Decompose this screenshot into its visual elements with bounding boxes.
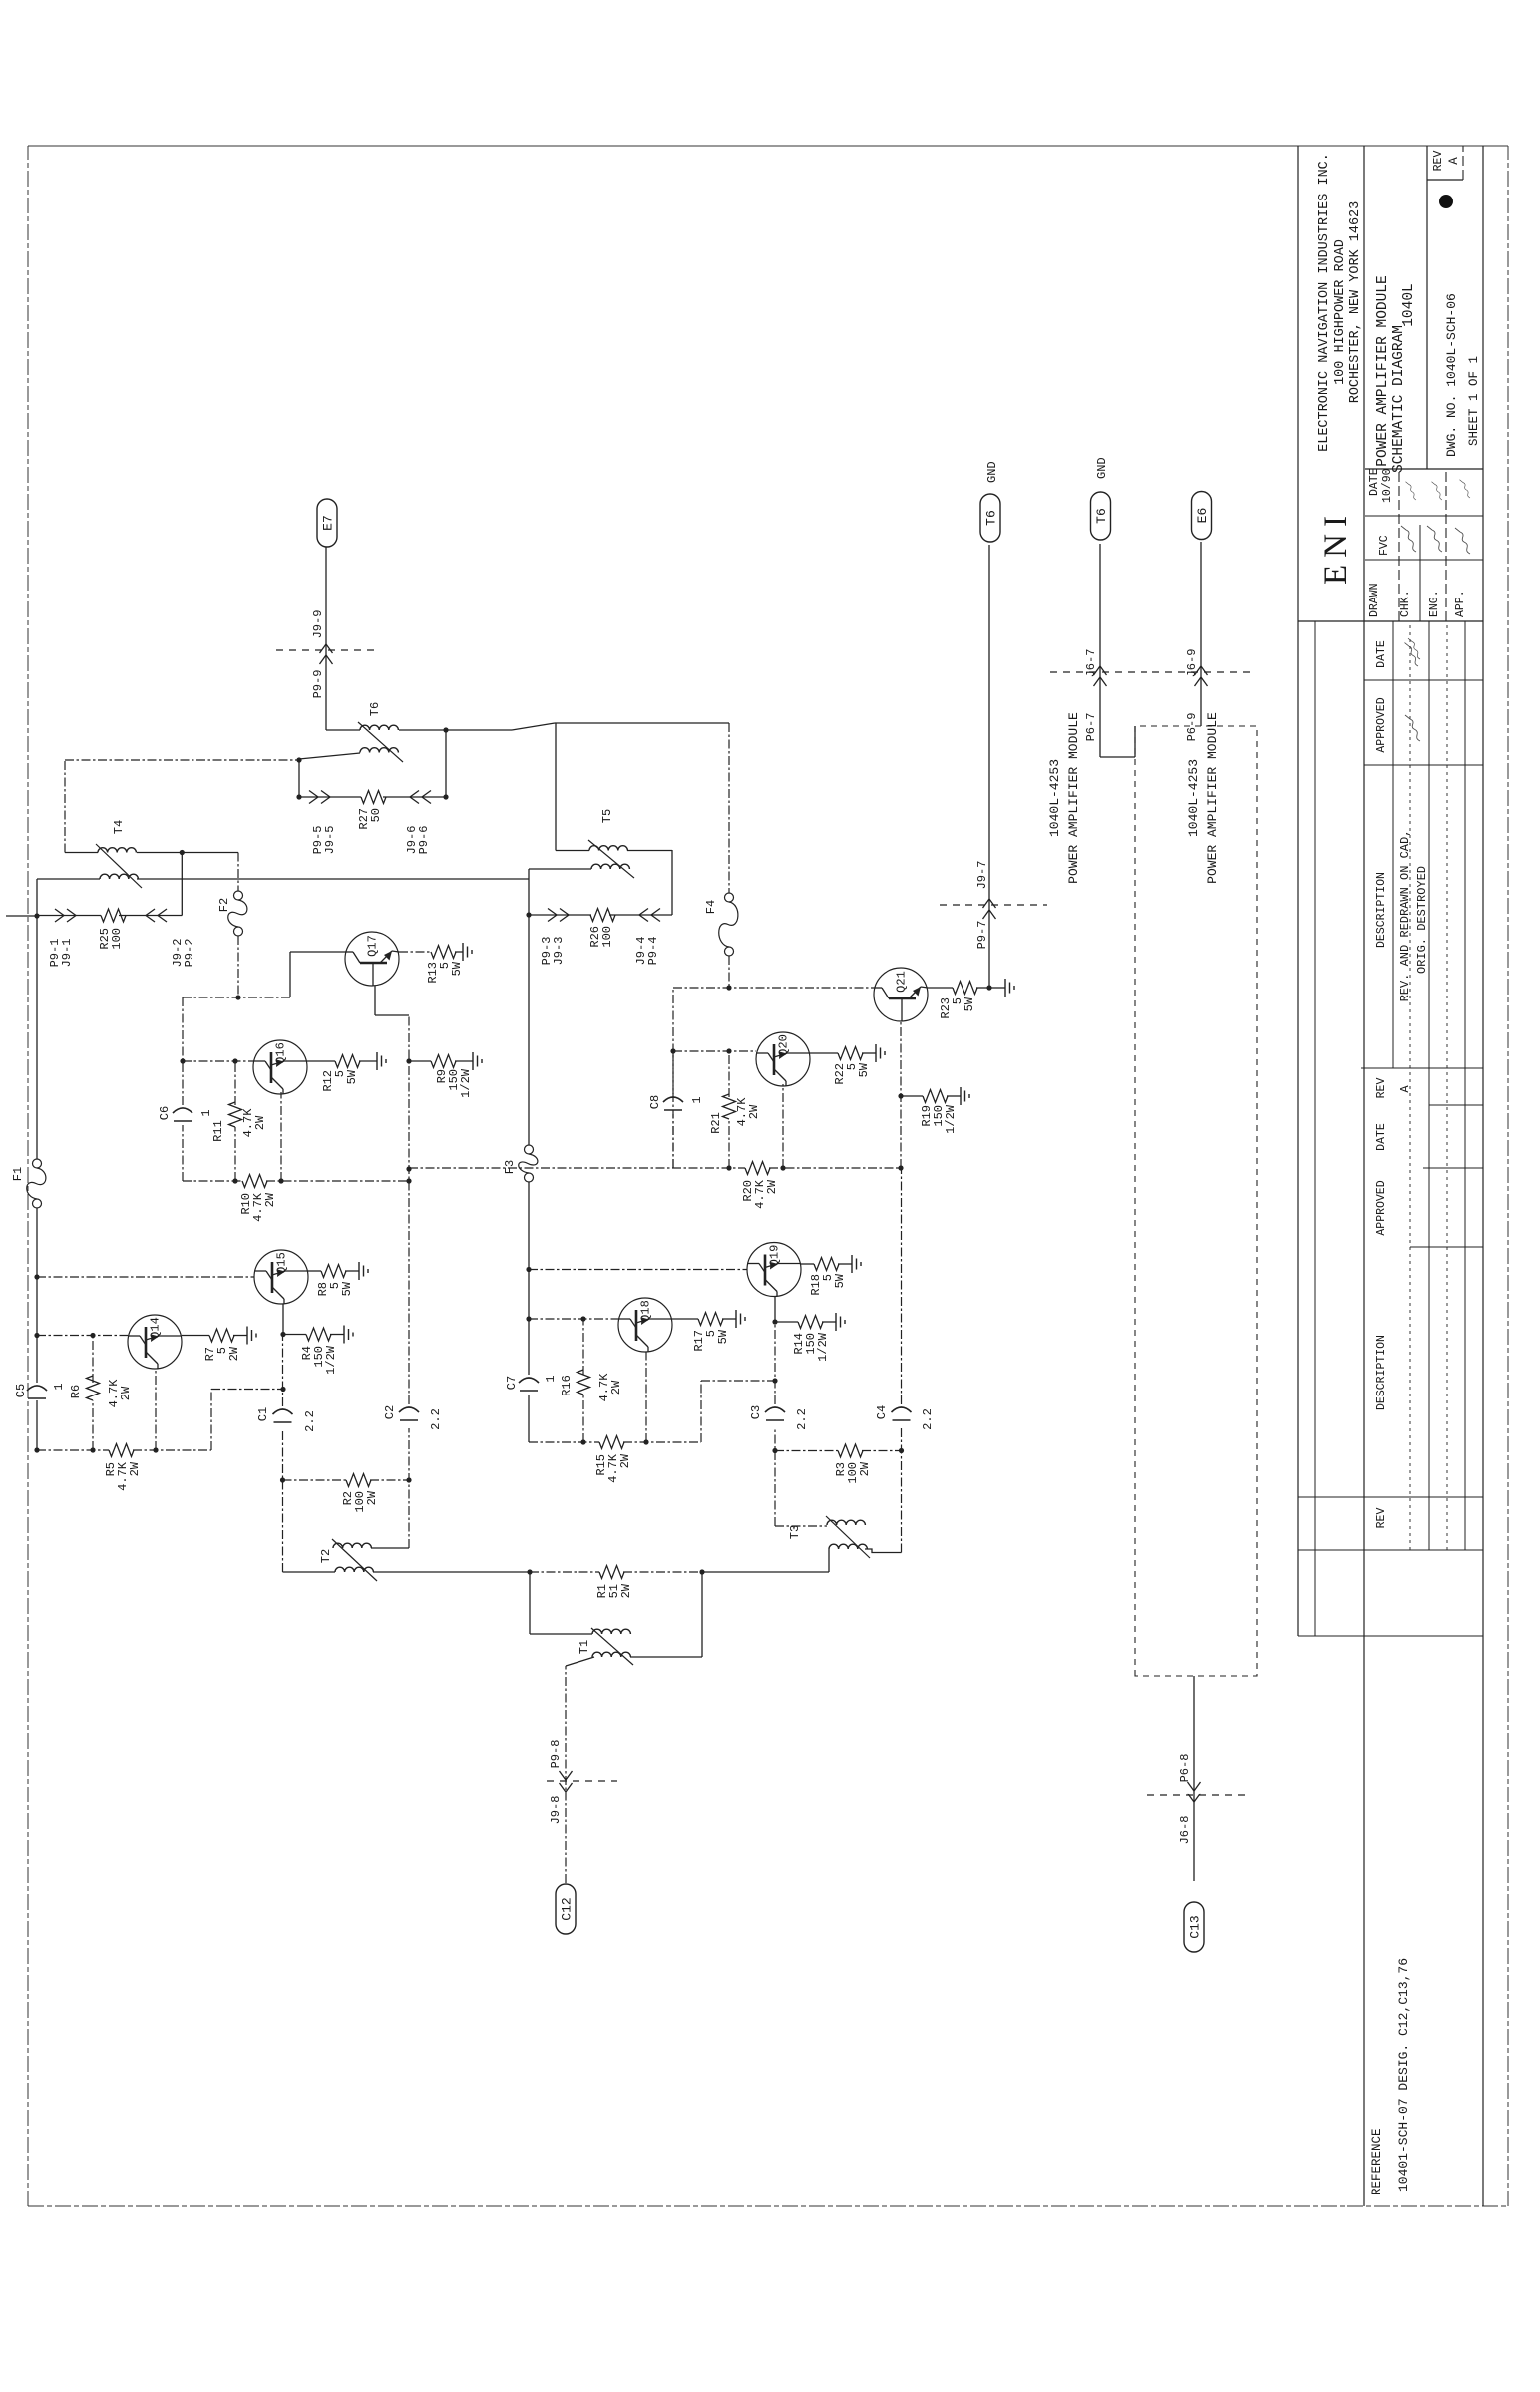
wire Q18 base lead <box>529 1318 618 1320</box>
wire T5 right winding bottom link <box>627 850 672 852</box>
svg-text:2W: 2W <box>765 1179 779 1194</box>
node N1 junction <box>34 913 39 918</box>
svg-text:2W: 2W <box>253 1115 267 1130</box>
svg-text:DATE: DATE <box>1368 468 1381 496</box>
wire Q17 emitter to R13 <box>399 951 431 953</box>
svg-text:2W: 2W <box>119 1386 133 1400</box>
svg-text:C6: C6 <box>158 1106 172 1120</box>
connector chain P9-1/J9-1 R25 J9-2/P9-2 <box>37 853 182 923</box>
wire Q14 base lead <box>37 1335 128 1337</box>
resistor R20 <box>741 1162 779 1209</box>
svg-text:J9-8: J9-8 <box>549 1796 563 1825</box>
svg-text:P9-7: P9-7 <box>975 921 989 950</box>
svg-text:J6-9: J6-9 <box>1185 649 1199 678</box>
wire Q21 base rail <box>673 988 874 1168</box>
svg-text:2.2: 2.2 <box>303 1410 317 1432</box>
svg-text:POWER AMPLIFIER MODULE: POWER AMPLIFIER MODULE <box>1066 712 1081 884</box>
dwg number <box>1444 293 1459 457</box>
svg-text:SHEET 1 OF 1: SHEET 1 OF 1 <box>1467 356 1481 446</box>
junction Q18 base tap <box>526 1316 531 1321</box>
module label 1 <box>1047 712 1081 884</box>
svg-text:REV: REV <box>1375 1078 1388 1099</box>
svg-text:1040L: 1040L <box>1401 283 1417 327</box>
svg-text:APPROVED: APPROVED <box>1375 697 1388 752</box>
svg-text:ENI: ENI <box>1318 509 1353 585</box>
svg-text:Q14: Q14 <box>149 1317 163 1339</box>
svg-text:P9-9: P9-9 <box>311 670 325 699</box>
label P9-3 J9-3 <box>540 937 566 966</box>
svg-text:2.2: 2.2 <box>921 1408 935 1430</box>
svg-text:2W: 2W <box>747 1104 761 1119</box>
wire R3 column <box>772 1448 904 1453</box>
svg-text:2W: 2W <box>619 1583 633 1598</box>
junction Q20 collector <box>780 1165 785 1170</box>
svg-text:T2: T2 <box>319 1549 333 1563</box>
connector P6-7/J6-7 <box>1050 649 1147 742</box>
junction Q14 base tap <box>34 1333 39 1338</box>
svg-text:C12: C12 <box>560 1897 575 1920</box>
svg-text:1/2W: 1/2W <box>944 1104 958 1134</box>
transistor Q15 <box>254 1250 308 1304</box>
wire Q14 collector <box>153 1369 158 1453</box>
svg-text:1: 1 <box>52 1383 66 1390</box>
capacitor C4 <box>875 1405 935 1430</box>
wire E6 line <box>1200 542 1202 726</box>
wire Q21 emitter to R23 <box>928 987 953 989</box>
rev cell <box>1432 151 1461 172</box>
svg-text:DESCRIPTION: DESCRIPTION <box>1375 872 1388 948</box>
svg-text:P6-8: P6-8 <box>1178 1754 1192 1783</box>
junction F4 to Q21 base <box>726 985 731 990</box>
svg-text:REV. AND REDRAWN ON CAD,: REV. AND REDRAWN ON CAD, <box>1398 830 1412 1002</box>
junction T6 primary node <box>296 757 301 799</box>
title block grid <box>1298 146 1483 2206</box>
svg-text:1040L-4253: 1040L-4253 <box>1047 759 1062 837</box>
wire Q17 base path <box>290 952 345 997</box>
junction Q16 base tap <box>180 1058 185 1063</box>
svg-text:ROCHESTER, NEW YORK 14623: ROCHESTER, NEW YORK 14623 <box>1348 201 1363 404</box>
svg-text:1/2W: 1/2W <box>459 1068 473 1098</box>
svg-text:T3: T3 <box>788 1525 802 1539</box>
wire R6 row <box>90 1333 95 1453</box>
wire Q21 collector path <box>898 1021 903 1171</box>
transformer T5 <box>588 809 634 878</box>
svg-text:T6: T6 <box>984 510 999 526</box>
resistor R1 <box>595 1566 633 1599</box>
wire C8 line <box>670 1048 675 1168</box>
wire T4 right winding to corner <box>65 852 238 854</box>
svg-text:J9-1: J9-1 <box>60 939 74 968</box>
ground R17 <box>722 1310 745 1328</box>
svg-text:REFERENCE: REFERENCE <box>1370 2128 1384 2195</box>
wire left rail R20 <box>409 1167 901 1169</box>
ground R12 <box>359 1052 386 1070</box>
svg-text:J6-7: J6-7 <box>1084 649 1098 678</box>
svg-text:10/90: 10/90 <box>1381 468 1394 503</box>
ground R13 <box>455 943 472 961</box>
wire jog R15 to main node ch2 <box>701 1378 778 1442</box>
transistor Q16 <box>253 1040 307 1094</box>
svg-text:50: 50 <box>369 808 383 822</box>
svg-text:P9-2: P9-2 <box>183 939 196 968</box>
svg-text:E6: E6 <box>1195 508 1210 524</box>
junction Q15 base tap <box>34 1274 39 1279</box>
resistor R15 <box>594 1436 632 1483</box>
wire GND bus 1 <box>988 545 990 988</box>
wire left rail R10 <box>183 1180 409 1182</box>
ground R18 <box>838 1255 861 1273</box>
svg-text:A: A <box>1447 157 1461 165</box>
svg-text:2W: 2W <box>365 1490 379 1505</box>
wire to C12 <box>566 1657 594 1883</box>
wire rail R1 <box>527 1569 704 1574</box>
wire C13 line <box>1193 1676 1195 1881</box>
svg-text:Q19: Q19 <box>768 1245 782 1267</box>
svg-text:P6-9: P6-9 <box>1185 713 1199 742</box>
terminal E7 <box>317 499 337 650</box>
resistor R22 <box>833 1047 871 1085</box>
terminal T6 gnd 1 <box>980 461 1000 542</box>
svg-text:2W: 2W <box>609 1380 623 1395</box>
fuse F4 <box>704 893 738 956</box>
junction R27 bottom <box>443 727 448 799</box>
svg-text:2.2: 2.2 <box>429 1408 443 1430</box>
resistor R27 <box>357 791 386 830</box>
wire C4 line <box>901 1168 903 1553</box>
transformer T2 <box>283 1539 531 1581</box>
wire Q16 collector <box>280 1092 282 1181</box>
transistor Q19 <box>747 1243 801 1297</box>
junction Q16 collector <box>278 1178 283 1183</box>
junction F2-rail <box>235 995 240 999</box>
wire R2 column <box>280 1477 412 1482</box>
wire R11 row <box>234 1061 236 1181</box>
svg-text:2W: 2W <box>858 1461 872 1476</box>
wire R21 row <box>726 1048 731 1170</box>
svg-text:R16: R16 <box>560 1375 574 1396</box>
svg-text:C7: C7 <box>505 1376 519 1390</box>
svg-text:DRAWN: DRAWN <box>1368 583 1381 617</box>
wire Q15 collector <box>280 1304 285 1337</box>
svg-text:C5: C5 <box>14 1384 28 1397</box>
reference box text <box>1370 1958 1411 2195</box>
logo ENI <box>1318 509 1353 585</box>
junction R23 output node <box>976 985 992 990</box>
svg-text:DESCRIPTION: DESCRIPTION <box>1375 1335 1388 1410</box>
wire Q20 collector <box>782 1084 784 1168</box>
svg-text:100: 100 <box>110 928 124 950</box>
connector P6-9/J6-9 <box>1152 649 1250 742</box>
wire T1 secondary out <box>630 1572 702 1657</box>
wire T4 left winding link <box>37 878 529 880</box>
wire C6 line <box>182 997 184 1181</box>
fuse F1 <box>11 1159 46 1208</box>
connector chain P9-5/J9-5 R27 J9-6/P9-6 <box>299 791 446 804</box>
svg-text:J9-9: J9-9 <box>311 610 325 639</box>
transistor Q14 <box>128 1315 182 1369</box>
label P9-5 J9-5 <box>311 826 337 855</box>
capacitor C8 <box>648 1095 704 1110</box>
svg-text:SCHEMATIC DIAGRAM: SCHEMATIC DIAGRAM <box>1391 325 1407 473</box>
connector chain P9-3/J9-3 R26 J9-4/P9-4 <box>529 850 672 922</box>
capacitor C3 <box>749 1405 809 1430</box>
svg-text:2.2: 2.2 <box>795 1408 809 1430</box>
svg-text:T6: T6 <box>368 702 382 716</box>
capacitor C6 <box>158 1106 213 1121</box>
wire F4 branch <box>728 723 730 988</box>
fuse F3 <box>503 1145 538 1182</box>
transistor Q18 <box>618 1298 672 1352</box>
svg-text:5W: 5W <box>716 1329 730 1344</box>
svg-text:C3: C3 <box>749 1405 763 1419</box>
resistor R12 <box>321 1055 360 1092</box>
svg-text:Q16: Q16 <box>274 1042 288 1064</box>
svg-text:J9-7: J9-7 <box>975 861 989 890</box>
svg-text:1/2W: 1/2W <box>816 1332 830 1362</box>
second module dashed box <box>1135 726 1257 1676</box>
capacitor C1 <box>256 1407 317 1432</box>
svg-text:A: A <box>1398 1085 1412 1093</box>
svg-text:P6-7: P6-7 <box>1084 713 1098 742</box>
svg-text:T5: T5 <box>600 809 614 823</box>
wire R16 row <box>580 1316 585 1444</box>
connector P6-8/J6-8 <box>1147 1754 1250 1845</box>
svg-text:J6-8: J6-8 <box>1178 1816 1192 1845</box>
svg-text:5W: 5W <box>340 1281 354 1296</box>
svg-text:J9-3: J9-3 <box>552 937 566 966</box>
wire GND bus 2 <box>1100 544 1135 757</box>
svg-text:2W: 2W <box>128 1461 142 1476</box>
wire Q19 collector <box>772 1297 777 1325</box>
resistor R11 <box>211 1102 267 1142</box>
junction T4-chain link <box>180 850 185 855</box>
app row <box>1454 590 1467 617</box>
svg-text:GND: GND <box>1095 457 1109 479</box>
svg-text:REV: REV <box>1432 151 1445 172</box>
resistor R9 with ground <box>409 1052 482 1098</box>
resistor R3 <box>834 1444 872 1484</box>
svg-text:R6: R6 <box>69 1385 83 1398</box>
svg-text:P9-8: P9-8 <box>549 1740 563 1769</box>
svg-text:5W: 5W <box>345 1069 359 1084</box>
company name <box>1317 153 1363 452</box>
svg-text:F1: F1 <box>11 1167 25 1181</box>
capacitor C5 <box>14 1383 66 1398</box>
fuse F2 <box>217 891 247 936</box>
wire T5 left winding top <box>529 868 591 870</box>
wire R5 column <box>34 1447 211 1452</box>
title text <box>1375 275 1417 473</box>
wire R15 column <box>529 1441 701 1443</box>
terminal E6 <box>1192 492 1212 540</box>
wire T6 secondary bottom run <box>399 723 729 730</box>
revision table grid <box>1298 621 1483 1636</box>
svg-text:5W: 5W <box>833 1273 847 1288</box>
wire Q14 emitter to R7 <box>182 1335 209 1337</box>
svg-text:DATE: DATE <box>1375 1123 1388 1151</box>
wire top loop to T6 primary <box>65 760 299 853</box>
svg-text:P9-6: P9-6 <box>417 826 431 855</box>
svg-text:T1: T1 <box>577 1640 591 1654</box>
svg-text:R21: R21 <box>709 1112 723 1134</box>
wire Q15 emitter to R8 <box>308 1270 321 1272</box>
ground R22 <box>862 1044 885 1062</box>
resistor R2 <box>341 1474 379 1513</box>
svg-text:1: 1 <box>199 1109 213 1116</box>
junction R11 ends <box>232 1058 237 1183</box>
capacitor C7 <box>505 1375 558 1391</box>
revision headers right <box>1375 640 1388 1098</box>
svg-text:FVC: FVC <box>1378 535 1391 556</box>
wire C1 line <box>282 1335 284 1573</box>
connector P9-9/J9-9 <box>276 610 377 699</box>
svg-text:CHK.: CHK. <box>1399 590 1412 617</box>
svg-text:T6: T6 <box>1094 508 1109 524</box>
eng row <box>1428 590 1441 617</box>
wire Q18 emitter to R17 <box>672 1318 698 1320</box>
wire T3 left winding bottom <box>865 1549 902 1553</box>
svg-text:ORIG. DESTROYED: ORIG. DESTROYED <box>1415 866 1429 974</box>
revision headers left <box>1375 1123 1388 1528</box>
svg-text:C4: C4 <box>875 1405 889 1419</box>
svg-text:P9-4: P9-4 <box>646 937 660 966</box>
terminal T6 gnd 2 <box>1091 457 1111 540</box>
drawn row <box>1368 468 1394 617</box>
terminal C12 <box>556 1884 576 1934</box>
svg-text:5W: 5W <box>962 997 976 1011</box>
resistor R16 <box>560 1370 623 1401</box>
revision entry A <box>1398 638 1429 1092</box>
wire Q20 emitter to R22 <box>810 1052 838 1054</box>
resistor R17 <box>692 1313 730 1352</box>
svg-text:10401-SCH-07 DESIG. C12,C13,76: 10401-SCH-07 DESIG. C12,C13,76 <box>1396 1958 1411 2192</box>
resistor R23 <box>939 982 977 1019</box>
svg-text:100 HIGHPOWER ROAD: 100 HIGHPOWER ROAD <box>1333 239 1347 385</box>
connector P9-8/J9-8 <box>547 1740 617 1825</box>
resistor R19 with ground <box>901 1087 969 1134</box>
ground output node <box>989 979 1014 997</box>
resistor R7 <box>203 1329 241 1361</box>
label P9-1 J9-1 <box>48 939 74 968</box>
svg-text:POWER AMPLIFIER MODULE: POWER AMPLIFIER MODULE <box>1205 712 1220 884</box>
wire Q16 emitter to R12 <box>307 1060 335 1062</box>
transistor Q21 <box>874 968 928 1021</box>
wire collector bus ly410 <box>408 1015 410 1548</box>
wire T6 secondary top to connector <box>326 650 360 730</box>
label J9-4 P9-4 <box>634 937 660 966</box>
wire input line ch1 (C5/F1 line, net to Q14 base) <box>6 879 37 1450</box>
punch hole dot <box>1439 195 1453 208</box>
svg-text:POWER AMPLIFIER MODULE: POWER AMPLIFIER MODULE <box>1375 275 1391 466</box>
signature scribbles <box>1401 480 1470 666</box>
svg-text:C2: C2 <box>383 1405 397 1419</box>
svg-text:APP.: APP. <box>1454 590 1467 617</box>
svg-text:C13: C13 <box>1188 1915 1203 1938</box>
label J9-6 P9-6 <box>405 826 431 855</box>
svg-text:5W: 5W <box>450 961 464 976</box>
ground R8 <box>345 1262 368 1280</box>
svg-text:F3: F3 <box>503 1160 517 1174</box>
svg-text:DATE: DATE <box>1375 640 1388 668</box>
resistor R6 <box>69 1376 133 1407</box>
connector P9-7/J9-7 <box>940 861 1047 950</box>
resistor R4 with ground <box>283 1326 353 1375</box>
wire Q18 collector <box>643 1352 648 1445</box>
svg-text:J9-5: J9-5 <box>323 826 337 855</box>
svg-text:Q17: Q17 <box>366 935 380 957</box>
resistor R21 <box>709 1094 761 1134</box>
svg-text:T4: T4 <box>112 820 126 834</box>
svg-text:F2: F2 <box>217 898 231 912</box>
wire Q19 emitter to R18 <box>801 1263 814 1265</box>
svg-text:ELECTRONIC NAVIGATION INDUSTRI: ELECTRONIC NAVIGATION INDUSTRIES INC. <box>1317 153 1332 452</box>
svg-text:100: 100 <box>600 926 614 948</box>
transformer T4 <box>96 820 142 888</box>
svg-text:APPROVED: APPROVED <box>1375 1180 1388 1235</box>
resistor R14 with ground <box>775 1313 845 1362</box>
svg-text:1: 1 <box>544 1375 558 1382</box>
transformer T1 <box>530 1572 633 1665</box>
wire Q20 base lead <box>673 1050 756 1052</box>
svg-text:2W: 2W <box>618 1453 632 1468</box>
label J9-2 P9-2 <box>171 939 196 968</box>
transistor Q20 <box>756 1032 810 1086</box>
transistor Q17 <box>345 932 399 986</box>
svg-text:Q21: Q21 <box>895 971 909 993</box>
wire input line ch2 (C7/F3 line) <box>528 915 530 1442</box>
resistor R10 <box>239 1175 277 1222</box>
resistor R18 <box>809 1258 847 1296</box>
sheet text <box>1467 356 1481 446</box>
junction bus dots <box>406 1058 411 1183</box>
transformer T3 <box>788 1516 870 1572</box>
wire node T6 primary bottom <box>299 753 360 797</box>
svg-text:1/2W: 1/2W <box>324 1345 338 1375</box>
svg-text:F4: F4 <box>704 900 718 914</box>
resistor R5 <box>104 1444 142 1491</box>
svg-text:C1: C1 <box>256 1407 270 1421</box>
svg-text:C8: C8 <box>648 1095 662 1109</box>
svg-text:GND: GND <box>985 461 999 483</box>
svg-text:1040L-4253: 1040L-4253 <box>1186 759 1201 837</box>
wire vertical rail to C6/Q17base <box>183 997 290 998</box>
wire N2 to T5/T4 corner <box>528 869 530 915</box>
node N2 junction <box>526 912 531 917</box>
svg-text:Q20: Q20 <box>777 1034 791 1056</box>
capacitor C2 <box>383 1405 443 1430</box>
wire rail to T3 <box>702 1571 829 1573</box>
transformer T6 <box>358 702 403 762</box>
svg-text:1: 1 <box>690 1096 704 1103</box>
wire Q16 base lead <box>183 1060 253 1062</box>
svg-text:DWG. NO. 1040L-SCH-06: DWG. NO. 1040L-SCH-06 <box>1444 293 1459 457</box>
svg-text:REV: REV <box>1375 1508 1388 1529</box>
wire Q15 base lead <box>37 1276 254 1278</box>
ground R7 <box>233 1327 256 1345</box>
wire F2 branch <box>237 853 239 998</box>
svg-text:E7: E7 <box>321 515 336 531</box>
junction Q19 base tap <box>526 1267 531 1272</box>
terminal C13 <box>1184 1902 1204 1952</box>
wire Q19 base lead <box>529 1269 747 1271</box>
resistor R13 <box>426 946 464 984</box>
resistor R26 <box>588 909 615 948</box>
svg-text:2W: 2W <box>227 1346 241 1361</box>
module label 2 <box>1186 712 1220 884</box>
wire jog R5 to main node <box>211 1387 286 1450</box>
wire C3 line <box>775 1322 827 1526</box>
svg-text:R11: R11 <box>211 1120 225 1142</box>
